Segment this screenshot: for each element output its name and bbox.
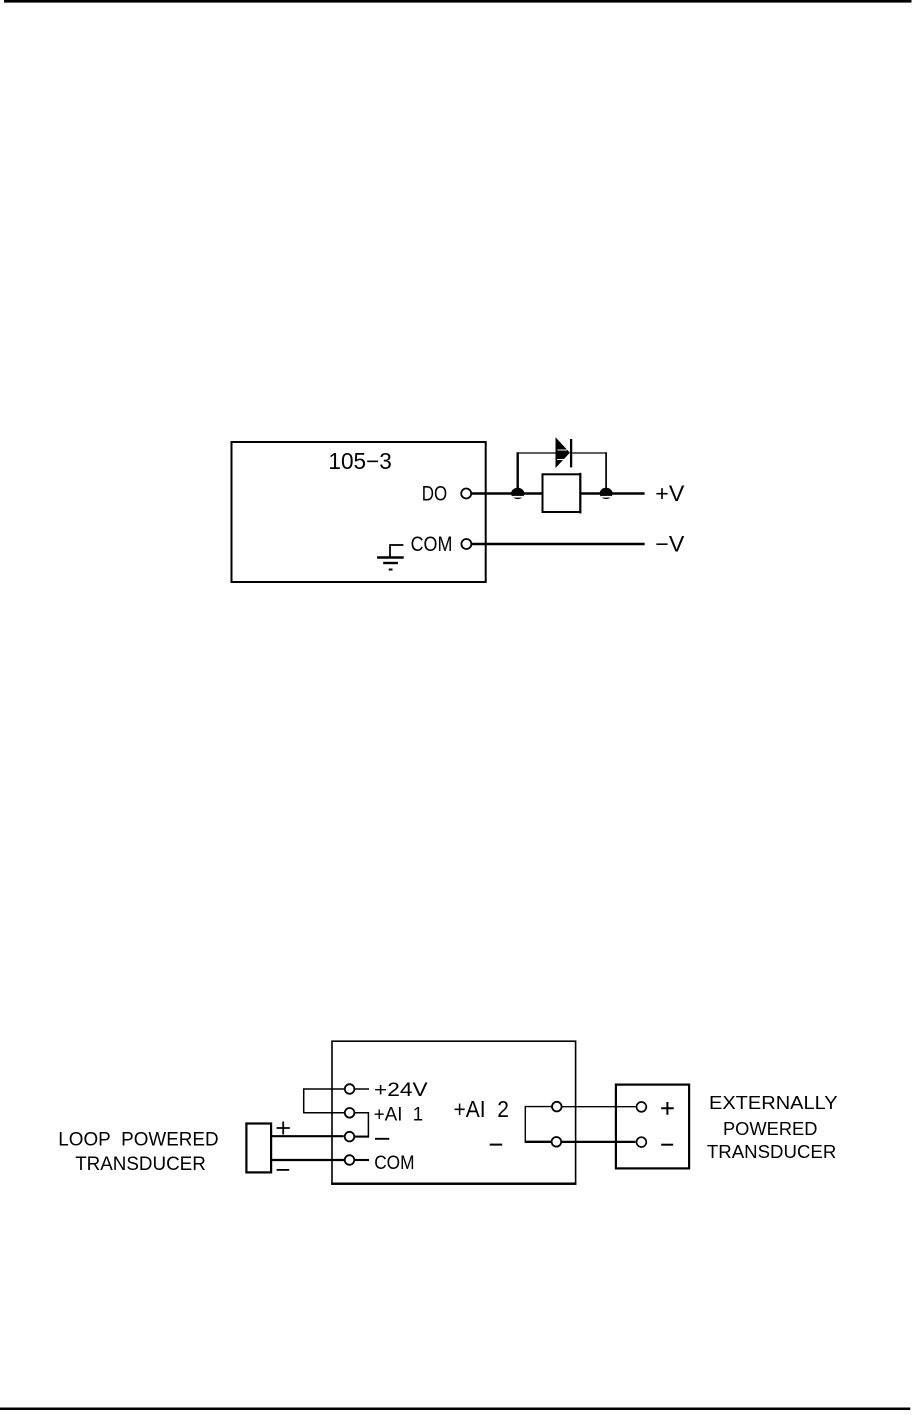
svg-text:+V: +V bbox=[655, 481, 684, 506]
externally powered transducer box bbox=[616, 1085, 689, 1169]
module 105-3 box bbox=[232, 442, 486, 582]
wire load to +V bbox=[580, 492, 644, 495]
svg-text:+AI 1: +AI 1 bbox=[374, 1105, 423, 1126]
terminal COM bbox=[461, 539, 471, 549]
page top rule bbox=[4, 0, 912, 3]
terminal COM bbox=[345, 1155, 355, 1165]
wire COM to -V bbox=[472, 543, 644, 546]
svg-text:+AI 2: +AI 2 bbox=[454, 1096, 509, 1122]
label minus transducer bbox=[277, 1169, 290, 1171]
ground bbox=[377, 544, 404, 569]
diode D1 bbox=[556, 437, 572, 468]
label + ext bbox=[661, 1102, 674, 1115]
svg-text:EXTERNALLY: EXTERNALLY bbox=[709, 1093, 838, 1113]
junction J1 bbox=[511, 488, 524, 499]
svg-text:DO: DO bbox=[422, 483, 447, 506]
label minus AI 2 bbox=[490, 1144, 503, 1146]
wire diode riser left bbox=[517, 452, 519, 494]
svg-text:COM: COM bbox=[411, 533, 453, 556]
terminal ext plus bbox=[637, 1102, 647, 1112]
wire jumper AI 2 bbox=[525, 1107, 552, 1142]
label + transducer bbox=[277, 1122, 290, 1135]
wire DO to load bbox=[472, 492, 543, 495]
page bottom rule bbox=[0, 1408, 910, 1411]
svg-text:105−3: 105−3 bbox=[328, 448, 392, 474]
terminal AI 1 minus bbox=[345, 1132, 355, 1142]
wire stub COM bbox=[354, 1159, 369, 1161]
loop powered transducer box bbox=[246, 1124, 271, 1173]
terminal +AI 1 bbox=[345, 1108, 355, 1118]
junction J2 bbox=[600, 488, 613, 499]
terminal +AI 2 bbox=[552, 1102, 562, 1112]
svg-text:−V: −V bbox=[655, 531, 684, 556]
wire AI 2 plus to ext transducer bbox=[562, 1106, 636, 1108]
svg-text:POWERED: POWERED bbox=[723, 1119, 817, 1139]
wire jumper +AI 1 to minus bbox=[355, 1113, 369, 1136]
terminal +24V bbox=[345, 1084, 355, 1094]
svg-text:+24V: +24V bbox=[374, 1080, 428, 1101]
label minus AI 1 bbox=[375, 1138, 389, 1140]
svg-text:LOOP POWERED: LOOP POWERED bbox=[58, 1130, 218, 1151]
wire stub +24V bbox=[355, 1088, 370, 1090]
terminal AI 2 minus bbox=[552, 1137, 562, 1147]
svg-text:TRANSDUCER: TRANSDUCER bbox=[75, 1154, 206, 1175]
load box bbox=[543, 473, 581, 514]
wire jumper +24V to +AI 1 bbox=[304, 1089, 345, 1113]
analog module box bbox=[332, 1041, 576, 1184]
terminal DO bbox=[461, 489, 471, 499]
svg-text:TRANSDUCER: TRANSDUCER bbox=[707, 1142, 836, 1162]
svg-text:COM: COM bbox=[374, 1153, 414, 1174]
wire jumper lower leg bbox=[354, 1136, 369, 1138]
wire AI 2 minus to ext transducer bbox=[561, 1141, 635, 1143]
wire transducer plus to minus terminal bbox=[271, 1135, 344, 1137]
label minus ext bbox=[661, 1144, 673, 1146]
terminal ext minus bbox=[637, 1137, 647, 1147]
wire diode right bbox=[572, 452, 607, 454]
wire transducer minus to COM bbox=[271, 1159, 345, 1161]
